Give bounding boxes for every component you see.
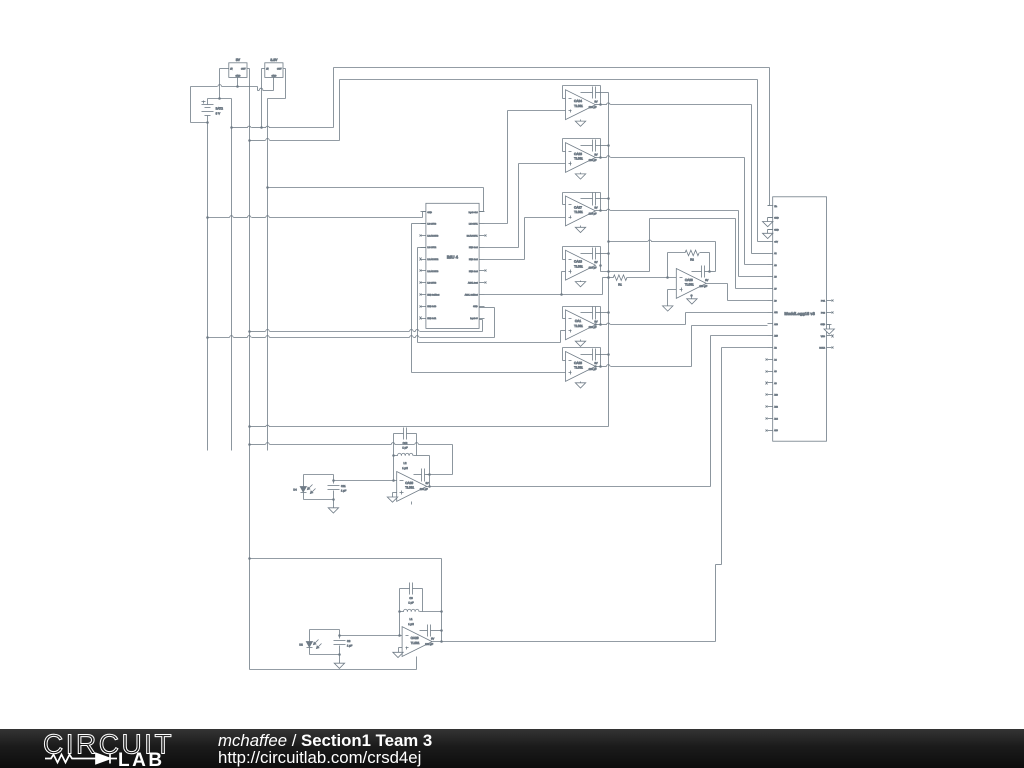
svg-text:GND: GND bbox=[821, 323, 826, 326]
svg-text:OA24: OA24 bbox=[574, 99, 582, 103]
svg-text:ENB 2out: ENB 2out bbox=[469, 270, 478, 273]
svg-text:5V: 5V bbox=[594, 362, 597, 365]
ground C11 bbox=[328, 508, 338, 513]
op-amp OA25 bbox=[566, 352, 598, 382]
ground below OA27 bbox=[575, 226, 585, 233]
svg-text:LM OUT0: LM OUT0 bbox=[427, 223, 437, 226]
svg-text:R2: R2 bbox=[690, 257, 694, 261]
svg-text:VDD: VDD bbox=[821, 335, 826, 338]
wire IMU ADXL SelfTest to OA13 + bbox=[485, 272, 603, 296]
svg-text:LM AJOUT0: LM AJOUT0 bbox=[427, 234, 439, 237]
svg-text:TL081: TL081 bbox=[411, 641, 420, 645]
wire OA30 out to A15 bbox=[427, 336, 768, 487]
wire D2 loop bbox=[310, 630, 341, 656]
svg-text:5V: 5V bbox=[705, 279, 708, 282]
wire GND bus B1 bbox=[206, 123, 209, 451]
svg-text:OA27: OA27 bbox=[574, 205, 582, 209]
svg-text:TL081: TL081 bbox=[405, 486, 414, 490]
svg-text:ENB Sel1: ENB Sel1 bbox=[427, 317, 437, 320]
svg-text:GND: GND bbox=[235, 74, 240, 77]
wire L2 to OA30 out bbox=[428, 456, 431, 488]
svg-text:5V: 5V bbox=[594, 207, 597, 210]
wire OA30 V- stub bbox=[411, 502, 413, 505]
svg-text:1 µH: 1 µH bbox=[402, 467, 408, 470]
svg-text:100 µF: 100 µF bbox=[589, 159, 597, 162]
svg-text:Input +5: Input +5 bbox=[470, 317, 478, 320]
battery BAT2 9V bbox=[202, 99, 224, 123]
svg-text:ADXL SelfTest: ADXL SelfTest bbox=[465, 293, 478, 296]
wire A7 runner bbox=[650, 219, 768, 289]
capacitor C13 feedback bbox=[581, 248, 609, 260]
op-amp OA1 bbox=[566, 310, 598, 340]
svg-text:100 µF: 100 µF bbox=[420, 488, 428, 491]
feedback loop OA1 bbox=[563, 307, 602, 326]
svg-text:1 µF: 1 µF bbox=[408, 602, 414, 605]
wire OA28 + input bbox=[668, 290, 677, 306]
svg-text:100 µF: 100 µF bbox=[699, 285, 707, 288]
svg-text:BAT2: BAT2 bbox=[216, 106, 224, 110]
svg-text:MCLR: MCLR bbox=[819, 347, 825, 350]
wire MuddLogg right GND bbox=[827, 325, 830, 330]
svg-text:5V: 5V bbox=[594, 101, 597, 104]
wire OA13 out jog bbox=[601, 266, 650, 273]
svg-text:OA1: OA1 bbox=[575, 319, 581, 323]
wire OA29 - input bbox=[340, 635, 403, 637]
capacitor OA29 out bbox=[420, 625, 442, 637]
wire 3.3V reg IN drop bbox=[260, 69, 264, 129]
wire OA25 out to A13 bbox=[594, 326, 767, 368]
wire 5V bus B3 bbox=[248, 139, 251, 450]
svg-text:GND: GND bbox=[271, 74, 276, 77]
svg-text:ADXL 3out: ADXL 3out bbox=[468, 282, 478, 285]
svg-text:Vin: Vin bbox=[774, 205, 777, 208]
capacitor C27 feedback bbox=[581, 193, 609, 206]
CircuitLab logo bbox=[0, 729, 220, 768]
ground C8 bbox=[334, 663, 344, 668]
svg-text:LM OUT3: LM OUT3 bbox=[427, 282, 437, 285]
IC U1 IMU 4 bbox=[420, 203, 487, 328]
wire rail3 to OA29 bbox=[250, 559, 443, 643]
wire 3.3V reg GND stub bbox=[273, 78, 275, 91]
svg-text:OUT: OUT bbox=[277, 68, 282, 71]
op-amp OA23 bbox=[566, 143, 598, 173]
svg-text:100 µF: 100 µF bbox=[589, 368, 597, 371]
svg-text:5V: 5V bbox=[594, 153, 597, 156]
svg-text:100 µF: 100 µF bbox=[589, 267, 597, 270]
wire OA30 - input bbox=[334, 480, 397, 482]
svg-text:LM AJOUT3: LM AJOUT3 bbox=[427, 270, 439, 273]
ground OA30 + bbox=[387, 497, 397, 502]
svg-text:3.3V: 3.3V bbox=[270, 58, 278, 62]
wire OA28 V- stub bbox=[690, 294, 693, 298]
wire GND to IMU GND pin bbox=[208, 212, 426, 218]
wire 5V reg OUT to B3 bbox=[248, 69, 250, 141]
wire OA30 + hook bbox=[393, 493, 397, 498]
wire IMU LM OUT1 to OA24 + bbox=[485, 111, 566, 224]
ground OA28 V- bbox=[687, 299, 697, 304]
resistor R1 bbox=[603, 275, 677, 287]
ground below OA1 bbox=[575, 340, 585, 347]
feedback loop OA30 bbox=[392, 434, 416, 482]
svg-text:TL081: TL081 bbox=[574, 324, 583, 328]
wire IMU LM OUT2 to OA1 + bbox=[418, 248, 566, 343]
wire IMU ENB 1out to OA27 + bbox=[485, 218, 566, 260]
ground OA29 + bbox=[393, 652, 403, 657]
svg-text:ENB 1out: ENB 1out bbox=[469, 258, 478, 261]
capacitor C11 bbox=[328, 485, 347, 493]
wire MuddLogg GND pin1 bbox=[768, 218, 773, 222]
voltage regulator 3.3V bbox=[265, 58, 283, 77]
wire OA23 out to A3 bbox=[596, 156, 768, 265]
svg-text:C11: C11 bbox=[341, 485, 346, 488]
svg-text:GND: GND bbox=[774, 217, 779, 220]
wire 5V bus B3 lower bbox=[248, 451, 251, 670]
ground MuddLogg GND1 bbox=[763, 222, 773, 227]
wire 5V to IMU Input+5 bbox=[250, 320, 483, 332]
svg-text:100 µF: 100 µF bbox=[589, 106, 597, 109]
svg-text:100 µF: 100 µF bbox=[425, 643, 433, 646]
wire 9V bus B2 bbox=[230, 99, 233, 451]
svg-text:GND: GND bbox=[473, 305, 478, 308]
wire main bus bottom to B3 bbox=[250, 425, 609, 427]
wire D4 loop bbox=[304, 475, 335, 501]
capacitor C9 bbox=[400, 583, 423, 605]
svg-text:Input +3.3: Input +3.3 bbox=[469, 211, 479, 214]
svg-text:OA28: OA28 bbox=[685, 278, 693, 282]
wire OA28 out to A9 bbox=[707, 284, 768, 301]
ground MuddLogg GND2 bbox=[763, 233, 773, 238]
svg-text:OA29: OA29 bbox=[411, 636, 419, 640]
wire 9V rail to top right bbox=[232, 68, 770, 206]
svg-text:D2: D2 bbox=[299, 644, 303, 647]
wire C8 ground stub bbox=[339, 655, 341, 664]
wire rail2 to OA30 cap bbox=[250, 443, 453, 475]
wire OA29 out to A2 bbox=[433, 348, 768, 642]
svg-text:100 µF: 100 µF bbox=[589, 326, 597, 329]
wire 5V reg GND stub bbox=[237, 78, 239, 87]
wire OA29 + hook bbox=[399, 648, 403, 653]
svg-text:MuddLogg16 v3: MuddLogg16 v3 bbox=[784, 311, 815, 316]
capacitor C25 feedback bbox=[581, 349, 609, 361]
svg-text:ENB SelfTest: ENB SelfTest bbox=[427, 293, 439, 296]
ground below OA25 bbox=[575, 382, 585, 389]
op-amp OA30 bbox=[397, 472, 429, 502]
svg-text:TL081: TL081 bbox=[574, 104, 583, 108]
inductor L2 bbox=[394, 453, 430, 470]
ground below OA24 bbox=[575, 120, 585, 127]
wire bus to OA28 cap bbox=[607, 240, 715, 271]
capacitor C8 bbox=[334, 640, 353, 648]
svg-text:ENB 0out: ENB 0out bbox=[469, 246, 478, 249]
op-amp OA29 bbox=[402, 627, 434, 657]
svg-text:9 V: 9 V bbox=[216, 111, 221, 115]
feedback loop OA24 bbox=[563, 86, 602, 106]
capacitor C1 feedback bbox=[581, 307, 609, 320]
svg-text:1 µF: 1 µF bbox=[347, 645, 353, 648]
svg-text:OA23: OA23 bbox=[574, 152, 582, 156]
svg-text:GND: GND bbox=[427, 211, 432, 214]
wire GND to IMU right GND pin bbox=[208, 308, 495, 338]
wire 3.3V bus B4 bbox=[266, 186, 269, 450]
wire bottom rail bbox=[250, 669, 417, 671]
wire main bus bbox=[607, 93, 610, 427]
svg-text:LM AJOUT2: LM AJOUT2 bbox=[427, 258, 439, 261]
op-amp OA27 bbox=[566, 196, 598, 226]
svg-text:C8: C8 bbox=[347, 640, 351, 643]
svg-text:100 µF: 100 µF bbox=[589, 212, 597, 215]
capacitor OA28 feedback bbox=[692, 266, 716, 278]
IC U2 MuddLogg16 v3 bbox=[766, 197, 834, 441]
svg-text:GND: GND bbox=[774, 229, 779, 232]
ground below OA13 bbox=[575, 281, 585, 287]
svg-text:LM OUT2: LM OUT2 bbox=[427, 246, 437, 249]
wire node A7 riser bbox=[649, 219, 651, 272]
svg-text:LM AJOUT1: LM AJOUT1 bbox=[467, 234, 479, 237]
wire C11 ground stub bbox=[333, 500, 335, 508]
op-amp OA24 bbox=[566, 90, 598, 120]
svg-text:5V: 5V bbox=[426, 482, 429, 485]
op-amp OA13 bbox=[566, 250, 598, 280]
ground OA28 + input bbox=[663, 306, 673, 311]
wire IMU ENB 0out to OA23 + bbox=[485, 164, 566, 248]
svg-text:OA13: OA13 bbox=[574, 260, 582, 264]
wire MuddLogg GND pin2 bbox=[768, 230, 773, 234]
feedback loop OA29 bbox=[398, 589, 422, 637]
svg-text:5V: 5V bbox=[431, 637, 434, 640]
svg-text:1 µF: 1 µF bbox=[402, 447, 408, 450]
svg-text:5V: 5V bbox=[594, 321, 597, 324]
feedback loop OA25 bbox=[563, 348, 602, 368]
wire IMU LM OUT0 to OA25 + bbox=[412, 224, 566, 373]
feedback loop OA28 bbox=[668, 253, 686, 278]
wire regulator GND loop bbox=[191, 85, 274, 124]
feedback loop OA23 bbox=[563, 139, 602, 159]
svg-text:D4: D4 bbox=[293, 489, 297, 492]
svg-text:1 µH: 1 µH bbox=[408, 623, 414, 626]
inductor L1 bbox=[400, 609, 442, 626]
svg-text:R1: R1 bbox=[618, 283, 622, 287]
svg-text:TL081: TL081 bbox=[574, 157, 583, 161]
capacitor C23 feedback bbox=[581, 140, 609, 152]
photodiode D4 bbox=[293, 485, 315, 494]
wire OA24 out to A1 bbox=[596, 103, 768, 254]
svg-text:OA25: OA25 bbox=[574, 361, 582, 365]
svg-text:OA30: OA30 bbox=[405, 481, 413, 485]
feedback loop OA27 bbox=[563, 193, 602, 212]
photodiode D2 bbox=[299, 640, 321, 649]
wire 3.3V reg OUT to B4 bbox=[268, 69, 286, 188]
voltage regulator 5V bbox=[229, 58, 247, 77]
svg-text:TL081: TL081 bbox=[574, 210, 583, 214]
svg-text:IMU 4: IMU 4 bbox=[447, 254, 459, 259]
svg-text:5V: 5V bbox=[594, 261, 597, 264]
feedback loop OA13 bbox=[563, 247, 602, 267]
wire OA27 out to A5 bbox=[596, 209, 768, 276]
wire 5V rail to top right bbox=[250, 80, 768, 242]
svg-text:ENB Sel0: ENB Sel0 bbox=[427, 305, 437, 308]
svg-text:OUT: OUT bbox=[241, 68, 246, 71]
svg-text:TL081: TL081 bbox=[574, 264, 583, 268]
svg-text:TL081: TL081 bbox=[574, 366, 583, 370]
wire OA1 out to A11 bbox=[594, 313, 767, 326]
svg-text:C9: C9 bbox=[409, 597, 413, 600]
wire OA29 V- to bottom rail bbox=[416, 657, 418, 670]
svg-text:LM OUT1: LM OUT1 bbox=[469, 223, 479, 226]
capacitor C24 feedback bbox=[581, 87, 609, 99]
ground below OA23 bbox=[575, 173, 585, 180]
svg-text:TL081: TL081 bbox=[685, 283, 694, 287]
capacitor C12 bbox=[394, 428, 417, 450]
wire battery+ to rails bbox=[208, 97, 232, 100]
svg-text:1 µF: 1 µF bbox=[341, 490, 347, 493]
op-amp OA28 bbox=[676, 269, 708, 299]
capacitor OA30 out bbox=[414, 469, 430, 482]
wire 3.3V to IMU Input+3.3 bbox=[268, 188, 484, 212]
resistor R2 bbox=[685, 250, 710, 271]
svg-text:C12: C12 bbox=[403, 442, 408, 445]
svg-text:5V: 5V bbox=[236, 58, 241, 62]
svg-text:LAB: LAB bbox=[118, 750, 165, 768]
ground MuddLogg right bbox=[824, 329, 834, 334]
wire 5V reg IN drop bbox=[220, 69, 229, 99]
